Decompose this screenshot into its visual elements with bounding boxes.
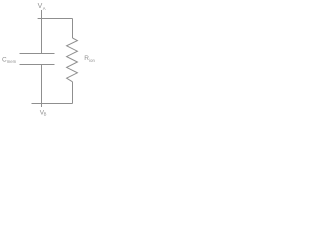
svg-text:A: A: [43, 6, 46, 11]
wire left branch upper: [41, 19, 43, 54]
resistor R_ion zigzag: [67, 38, 78, 82]
capacitor C_mem top plate: [20, 53, 55, 55]
wire right branch lower: [72, 82, 74, 104]
wire bottom stub to V_B: [41, 104, 43, 108]
wire top rail: [38, 18, 73, 20]
svg-text:mem: mem: [7, 59, 17, 64]
capacitor C_mem bottom plate: [20, 64, 55, 66]
wire left branch lower: [41, 65, 43, 104]
svg-text:B: B: [44, 112, 47, 117]
wire top stub from node A: [41, 10, 43, 19]
wire right branch upper: [72, 19, 74, 39]
svg-text:ion: ion: [89, 58, 95, 63]
wire bottom rail: [32, 103, 73, 105]
